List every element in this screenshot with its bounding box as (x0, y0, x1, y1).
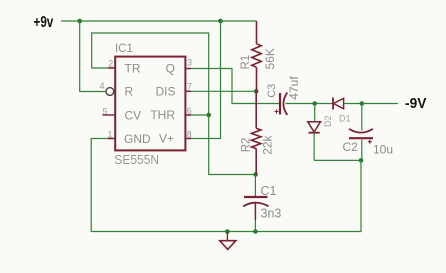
wire pin6 THR (186, 114, 209, 116)
wire +9V rail (61, 20, 257, 22)
pin 1 GND stub (108, 138, 115, 140)
svg-text:47uf: 47uf (287, 76, 301, 100)
junction dot R2/C1/THR net (253, 172, 258, 177)
capacitor C2 (349, 104, 373, 161)
pin 5 CV stub (103, 114, 115, 116)
diode D1 (333, 98, 344, 110)
svg-text:D1: D1 (339, 114, 351, 124)
pin 3 Q stub (185, 68, 192, 70)
svg-text:3n3: 3n3 (261, 206, 282, 220)
ground symbol (220, 232, 236, 250)
svg-text:5: 5 (102, 107, 107, 117)
svg-text:R: R (125, 85, 134, 99)
junction dot THR pin6 (206, 113, 211, 118)
diode D2 (308, 104, 321, 161)
svg-text:56K: 56K (263, 48, 277, 69)
junction dot C1 at ground rail (253, 229, 258, 234)
svg-text:CV: CV (125, 109, 142, 123)
svg-text:IC1: IC1 (115, 43, 133, 55)
svg-text:V+: V+ (159, 131, 174, 145)
pin 7 DIS stub (185, 90, 192, 92)
pin 4 R bubble (106, 88, 114, 96)
wire D1 to -9V node (344, 103, 398, 105)
svg-text:10u: 10u (373, 142, 393, 156)
svg-text:DIS: DIS (155, 84, 175, 98)
op-amp U1 : IC1 SE555N timer box (115, 57, 185, 151)
pin 2 TR stub (108, 67, 115, 69)
wire +9V to pin4 reset (80, 21, 106, 92)
svg-text:6: 6 (187, 106, 192, 116)
junction dot DIS/R1/R2 (254, 89, 259, 94)
resistor R2 (252, 91, 261, 174)
svg-text:D2: D2 (323, 115, 333, 127)
svg-text:1: 1 (107, 130, 112, 140)
svg-text:C1: C1 (261, 184, 277, 198)
svg-text:R2: R2 (241, 138, 253, 153)
svg-text:+9v: +9v (34, 14, 54, 31)
svg-text:R1: R1 (240, 55, 252, 70)
svg-text:SE555N: SE555N (114, 152, 159, 167)
pin 8 V+ stub (185, 138, 192, 140)
svg-text:8: 8 (187, 130, 192, 140)
wire pin3 Q output to C3 (186, 69, 280, 104)
wire ground rail (91, 139, 361, 232)
svg-text:7: 7 (187, 82, 192, 92)
wire C3 to node A (286, 103, 334, 105)
svg-text:TR: TR (125, 61, 141, 75)
svg-text:THR: THR (150, 108, 175, 122)
svg-text:-9V: -9V (405, 95, 426, 112)
svg-text:22k: 22k (261, 134, 275, 154)
wire pin2 TR loop to THR net (92, 33, 256, 175)
wire D2 to ground net (314, 159, 361, 161)
svg-text:2: 2 (108, 58, 113, 68)
junction dot +9V rail at V+ drop (218, 19, 223, 24)
svg-text:GND: GND (124, 132, 151, 146)
svg-text:C2: C2 (343, 140, 359, 154)
junction dot -9V node (D1/C2) (360, 101, 365, 106)
svg-text:3: 3 (187, 58, 192, 68)
junction dot ground symbol (225, 229, 230, 234)
svg-text:4: 4 (99, 81, 104, 91)
wire pin7 DIS to R1/R2 (186, 90, 256, 92)
junction dot on +9V rail left (77, 19, 82, 24)
capacitor C1 (243, 175, 268, 232)
wire +9V to pin8 V+ (186, 21, 221, 139)
junction dot node A (C3/D1/D2) (312, 101, 317, 106)
resistor R1 (252, 21, 261, 91)
junction dot C2 bottom / ground net (359, 158, 364, 163)
pin 6 THR stub (185, 114, 192, 116)
svg-text:C3: C3 (266, 84, 278, 98)
svg-text:Q: Q (166, 62, 175, 76)
capacitor C3 (275, 93, 288, 116)
